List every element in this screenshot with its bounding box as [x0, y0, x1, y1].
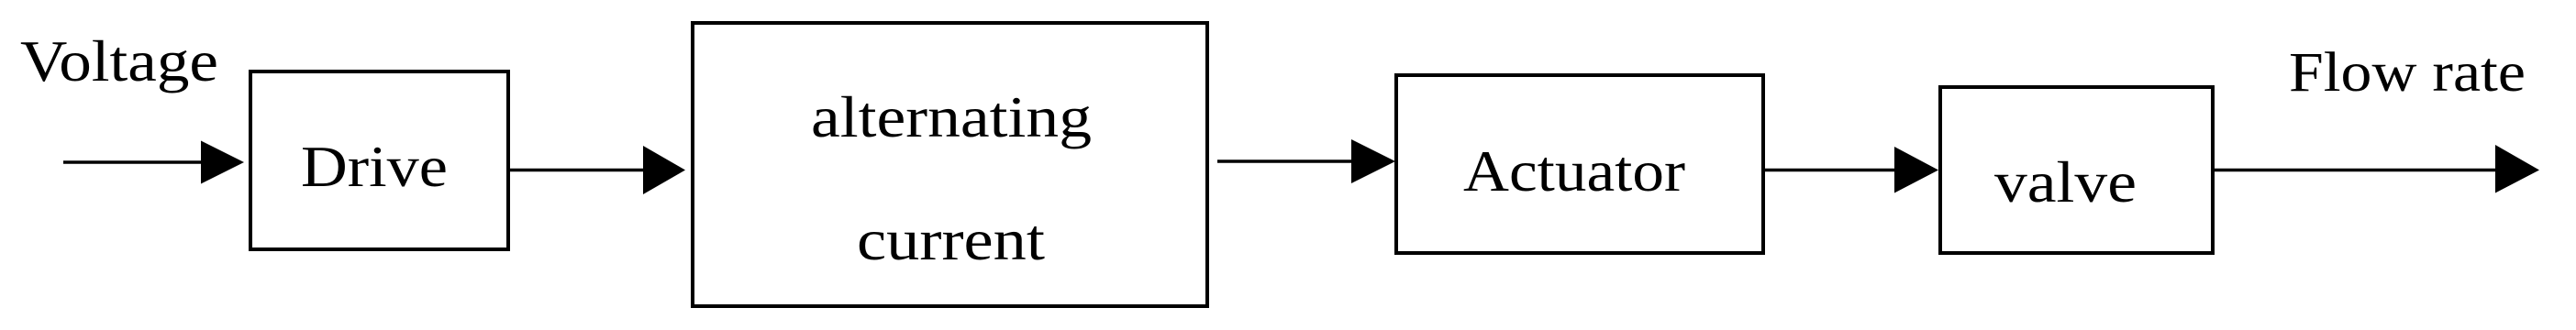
- svg-text:Voltage: Voltage: [20, 29, 218, 93]
- box valve: [1940, 87, 2213, 253]
- svg-text:Drive: Drive: [301, 135, 448, 199]
- wire Drive to alternating-current box: [510, 146, 685, 194]
- node Flow rate (output label): [2289, 42, 2526, 104]
- wire valve to output: [2213, 145, 2539, 193]
- wire input arrow into Drive: [63, 141, 244, 184]
- svg-text:Actuator: Actuator: [1463, 139, 1685, 203]
- svg-text:current: current: [857, 208, 1046, 272]
- node Voltage (input label): [20, 29, 218, 93]
- box Actuator: [1396, 75, 1763, 253]
- svg-text:alternating: alternating: [811, 85, 1092, 149]
- box Drive: [250, 71, 508, 249]
- box alternating current: [693, 23, 1207, 306]
- svg-text:Flow rate: Flow rate: [2289, 42, 2526, 104]
- wire alternating-current box to Actuator: [1217, 139, 1395, 183]
- wire Actuator to valve: [1763, 147, 1938, 193]
- svg-text:valve: valve: [1994, 150, 2137, 214]
